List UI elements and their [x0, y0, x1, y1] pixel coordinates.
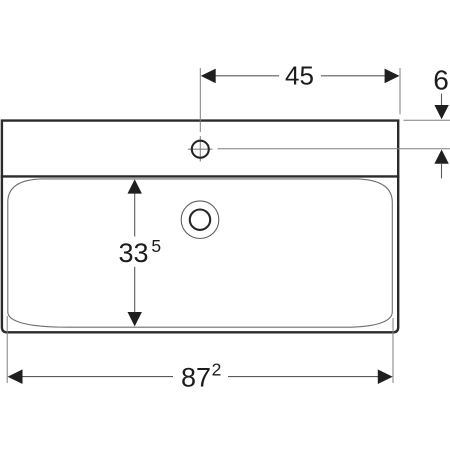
- tap hole: [192, 141, 209, 158]
- dim 6 top extension line: [404, 119, 450, 121]
- dim 33.5 down arrowhead: [128, 312, 142, 326]
- svg-text:45: 45: [285, 60, 314, 90]
- dim 33.5 up arrowhead: [128, 179, 142, 193]
- svg-text:5: 5: [151, 236, 161, 256]
- dim 45 line: [203, 75, 397, 77]
- dim 45 left arrowhead: [201, 69, 216, 84]
- dim 45 right arrowhead: [385, 69, 400, 84]
- dim 45 right extension line: [399, 68, 401, 114]
- svg-text:2: 2: [212, 360, 222, 380]
- overflow hole outer ring: [181, 201, 219, 239]
- tap hole crosshair: [188, 136, 213, 162]
- dim 45 left extension line: [199, 68, 201, 132]
- dim 6 bottom extension line (from tap hole): [218, 148, 450, 150]
- tap deck front edge line: [1, 175, 400, 177]
- washbasin outer outline: [2, 121, 398, 333]
- dim 87.2 right extension line: [392, 318, 394, 383]
- basin inner outline: [8, 179, 393, 327]
- svg-text:6: 6: [433, 64, 449, 95]
- dim 6 up arrow: [434, 150, 448, 164]
- dim 87.2 left extension line: [6, 316, 8, 383]
- dim 87.2 left arrowhead: [8, 369, 23, 384]
- dim 87.2 line: [10, 376, 390, 378]
- svg-text:87: 87: [181, 363, 211, 393]
- dim 33.5 line: [134, 181, 136, 324]
- dim 6 down arrow: [441, 94, 443, 106]
- overflow hole inner ring: [190, 210, 210, 230]
- dim 87.2 right arrowhead: [378, 369, 393, 384]
- svg-text:33: 33: [119, 238, 149, 268]
